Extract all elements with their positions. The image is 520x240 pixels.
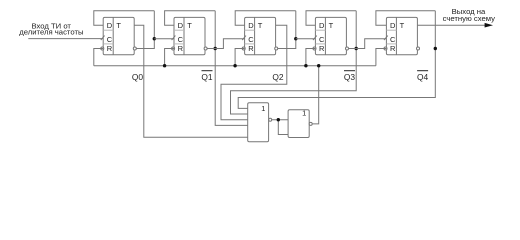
gate D2 (NOR) body <box>288 110 309 138</box>
wire: U2 R stub <box>165 49 174 66</box>
svg-text:1: 1 <box>261 104 265 113</box>
flip-flop U2 body <box>174 17 205 54</box>
wire: D1 output to D2 inputs <box>272 119 288 121</box>
wire: common reset rail <box>94 65 376 67</box>
wire: U3 feedback loop top (D input) <box>235 11 296 25</box>
flip-flop U3 inverted output bubble <box>275 47 278 50</box>
flip-flop U4 divider <box>324 17 326 54</box>
gate D1 output bubble <box>269 118 272 121</box>
flip-flop U2 R inversion bubble <box>172 47 175 50</box>
flip-flop U1 inverted output bubble <box>133 47 136 50</box>
svg-text:C: C <box>390 35 396 44</box>
wire: U2 Qbar to U3 C input <box>207 39 245 49</box>
wire: U5 Q output to arrow <box>417 24 485 26</box>
flip-flop U1 field separators <box>103 29 113 31</box>
svg-text:Q0: Q0 <box>132 72 144 82</box>
wire: U3 R stub <box>235 49 245 66</box>
svg-text:C: C <box>107 35 113 44</box>
flip-flop U2 dynamic input slash <box>172 36 176 41</box>
flip-flop U3 field separators <box>245 29 255 31</box>
svg-text:Q2: Q2 <box>272 72 284 82</box>
svg-text:D: D <box>248 21 254 30</box>
wire: U1 Q output to Q0 line <box>134 25 248 137</box>
wire: U1 R to reset rail <box>94 49 103 66</box>
svg-text:C: C <box>178 35 184 44</box>
flip-flop U5 field separators <box>386 29 396 31</box>
wire: U3 Q output down and into gate D1 input 3 <box>221 25 287 120</box>
svg-text:D: D <box>390 21 396 30</box>
gate D1 (NOR) body <box>248 103 269 142</box>
svg-text:C: C <box>319 35 325 44</box>
wire: U4 Qbar to U5 C input <box>349 39 387 49</box>
node: rail junction at U3 <box>233 64 236 67</box>
wire: U1 Qbar up to loop <box>136 11 154 49</box>
svg-text:Q3: Q3 <box>344 72 356 82</box>
svg-text:R: R <box>319 44 325 53</box>
flip-flop U1 body <box>103 17 134 54</box>
svg-text:T: T <box>187 21 192 30</box>
wire: U3 Qbar up to loop <box>278 11 296 49</box>
node: rail junction at U2 <box>163 64 166 67</box>
wire: U2 feedback loop top (D input) <box>165 11 216 25</box>
gate D2 output bubble <box>309 122 312 125</box>
svg-text:делителя частоты: делителя частоты <box>19 27 83 36</box>
wire: U1 feedback loop top (D input) <box>94 11 155 25</box>
svg-text:R: R <box>107 44 113 53</box>
flip-flop U1 dynamic input slash <box>101 36 105 41</box>
node: D1 output junction <box>277 118 280 121</box>
wire: U3 Qbar to U4 C input <box>296 38 316 40</box>
flip-flop U4 dynamic input slash <box>313 36 317 41</box>
flip-flop U3 dynamic input slash <box>242 36 246 41</box>
flip-flop U1 R inversion bubble <box>101 47 104 50</box>
svg-text:счетную схему: счетную схему <box>443 14 496 23</box>
wire: U4 Qbar line down to gate D1 input 2 <box>231 11 357 114</box>
node: U4 Qbar junction <box>355 47 358 50</box>
svg-text:Q4: Q4 <box>417 72 429 82</box>
flip-flop U4 field separators <box>315 29 325 31</box>
wire: D2 output up to reset rail <box>312 66 319 124</box>
svg-text:C: C <box>248 35 254 44</box>
svg-text:D: D <box>178 21 184 30</box>
node: U2 Qbar junction <box>214 47 217 50</box>
output arrowhead <box>485 23 493 28</box>
flip-flop U5 inverted output bubble <box>417 47 420 50</box>
svg-text:Q1: Q1 <box>201 72 213 82</box>
flip-flop U2 divider <box>183 17 185 54</box>
svg-text:D: D <box>107 21 113 30</box>
flip-flop U2 field separators <box>174 29 184 31</box>
svg-text:R: R <box>248 44 254 53</box>
svg-text:T: T <box>329 21 334 30</box>
flip-flop U5 R inversion bubble <box>384 47 387 50</box>
wire: U2 Qbar line down to gate D1 input 4 <box>215 11 248 126</box>
wire: U5 feedback loop top (D input) <box>376 11 435 25</box>
svg-text:R: R <box>178 44 184 53</box>
flip-flop U4 body <box>315 17 346 54</box>
flip-flop U1 divider <box>112 17 114 54</box>
svg-text:T: T <box>116 21 121 30</box>
node: reset rail driven junction <box>317 64 320 67</box>
flip-flop U3 R inversion bubble <box>242 47 245 50</box>
flip-flop U4 R inversion bubble <box>313 47 316 50</box>
flip-flop U3 divider <box>254 17 256 54</box>
svg-text:T: T <box>258 21 263 30</box>
wire: U4 R stub <box>306 49 316 66</box>
flip-flop U4 inverted output bubble <box>346 47 349 50</box>
svg-text:D: D <box>319 21 325 30</box>
wire: U5 R stub <box>376 49 387 66</box>
wire: clock input to C of U1 <box>28 38 103 40</box>
node: U5 Qbar junction <box>434 47 437 50</box>
node: U3 Qbar branch junction <box>294 37 297 40</box>
svg-text:T: T <box>400 21 405 30</box>
wire: U5 Qbar line down to gate D1 input 1 <box>238 11 435 109</box>
flip-flop U2 inverted output bubble <box>204 47 207 50</box>
node: U1 Qbar branch junction <box>153 37 156 40</box>
flip-flop U5 divider <box>395 17 397 54</box>
flip-flop U5 body <box>386 17 417 54</box>
flip-flop U3 body <box>245 17 276 54</box>
wire: U1 Qbar to U2 C input <box>154 38 174 40</box>
node: rail junction at U4 <box>304 64 307 67</box>
flip-flop U5 dynamic input slash <box>384 36 388 41</box>
wire: U4 feedback loop top (D input) <box>306 11 356 25</box>
svg-text:1: 1 <box>302 109 306 118</box>
svg-text:R: R <box>390 44 396 53</box>
